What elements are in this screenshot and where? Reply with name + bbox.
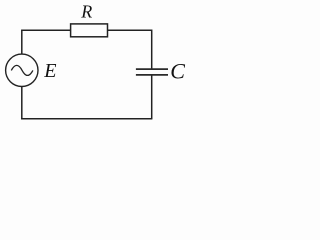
wire: top rail left segment to resistor	[21, 29, 71, 31]
resistor R	[71, 24, 108, 37]
svg-text:E: E	[43, 60, 56, 82]
wire: bottom-left vertical from bottom rail up to source bottom	[21, 86, 23, 119]
svg-text:R: R	[80, 2, 92, 22]
wire: top-left vertical from source top to top rail	[21, 30, 23, 54]
wire: right vertical from capacitor bottom plate to bottom rail	[151, 75, 153, 119]
wire: bottom rail	[21, 118, 152, 120]
wire: right vertical from top rail down to capacitor top plate	[151, 30, 153, 69]
svg-text:C: C	[170, 59, 185, 84]
capacitor C	[136, 69, 168, 75]
ac source E	[6, 54, 38, 86]
wire: top rail right segment from resistor to corner	[108, 29, 152, 31]
